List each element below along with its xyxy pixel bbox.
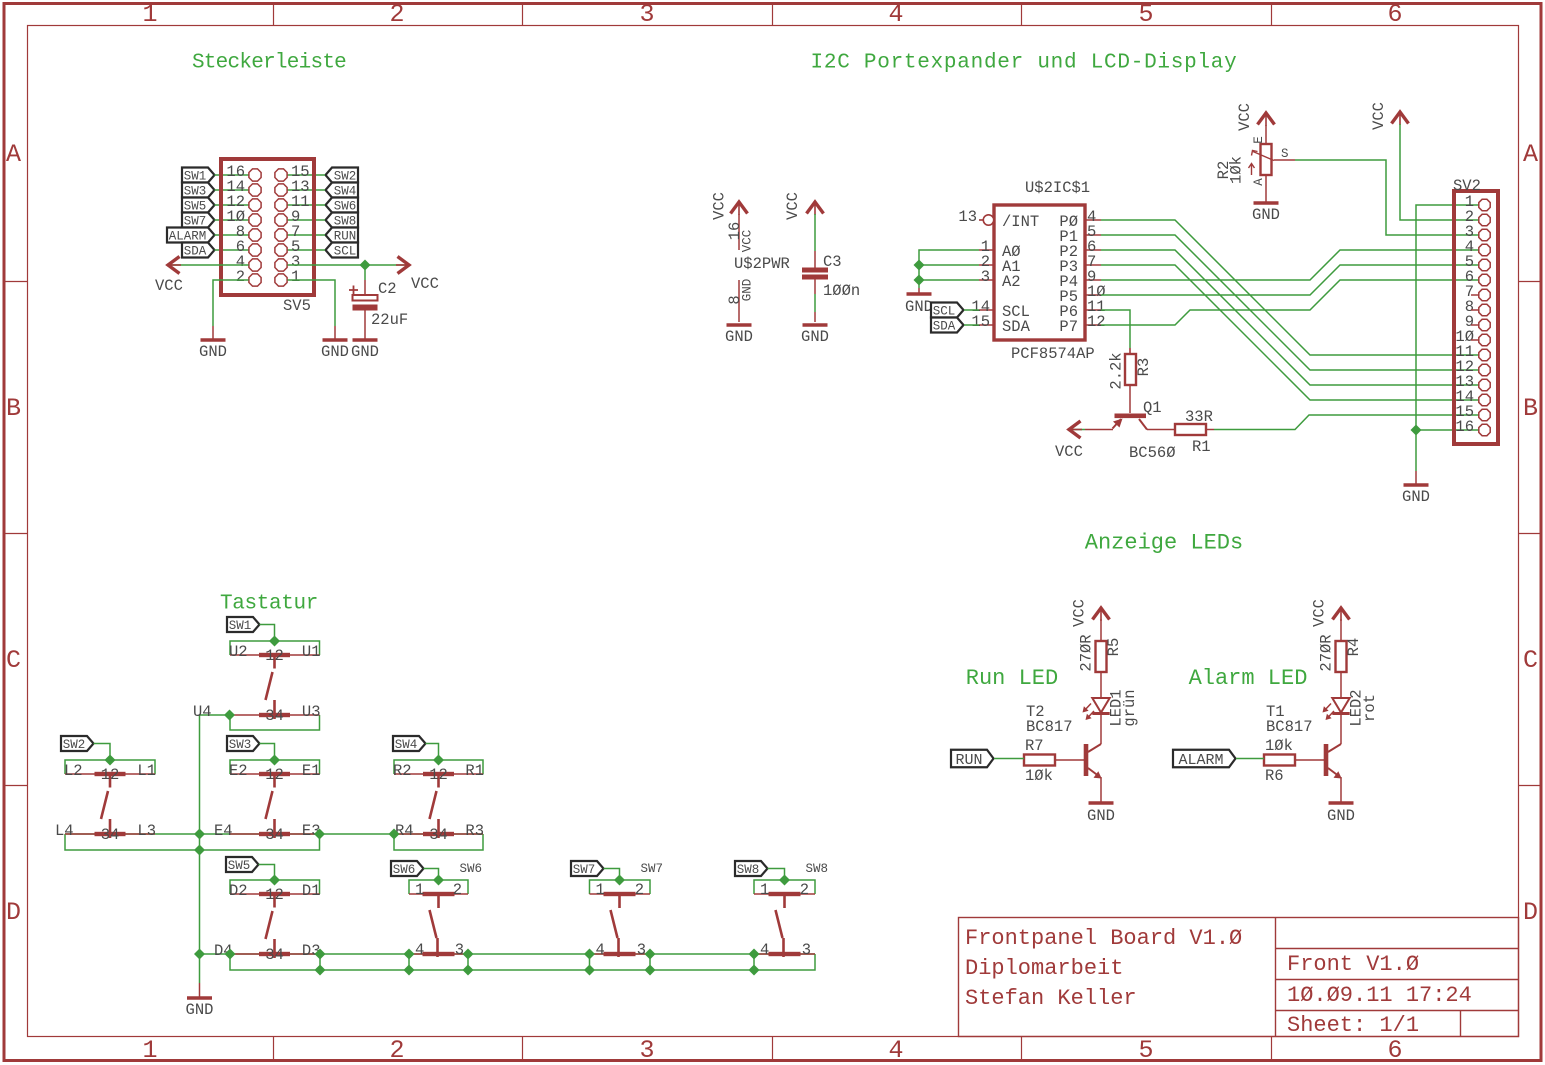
svg-text:Front V1.Ø: Front V1.Ø — [1287, 952, 1419, 977]
wire — [994, 758, 1024, 760]
wire — [215, 189, 249, 191]
net label SDA — [931, 318, 964, 333]
svg-text:12: 12 — [429, 766, 448, 784]
net label SW6 — [326, 198, 359, 213]
wire — [215, 204, 249, 206]
SV2 pin 5 pad — [1479, 259, 1490, 270]
svg-text:Sheet: 1/1: Sheet: 1/1 — [1287, 1013, 1419, 1038]
svg-text:RUN: RUN — [955, 752, 982, 769]
switch SW5 lever — [273, 894, 276, 908]
junction — [914, 275, 925, 286]
net label SCL — [326, 243, 359, 258]
wire — [753, 954, 755, 970]
svg-text:VCC: VCC — [155, 277, 183, 295]
svg-text:VCC: VCC — [1370, 102, 1388, 130]
svg-text:GND: GND — [199, 343, 227, 361]
wire A1 — [919, 264, 979, 266]
junction — [194, 949, 205, 960]
svg-text:D: D — [6, 898, 21, 927]
SV2 pin 10 stub — [1471, 339, 1479, 341]
U$2PWR pin 16 wire — [738, 214, 740, 250]
SV5 pin 8 pad — [249, 229, 261, 241]
svg-text:grün: grün — [1121, 689, 1139, 726]
wire P5 to SV2 pin 5 — [1101, 265, 1479, 295]
wire — [1415, 430, 1417, 471]
supply VCC arrow left — [168, 257, 180, 274]
svg-text:SCL: SCL — [334, 245, 357, 259]
svg-text:SDA: SDA — [1002, 318, 1031, 336]
svg-text:SW5: SW5 — [228, 859, 251, 873]
trimmer R2 body — [1261, 144, 1272, 175]
wire — [1129, 348, 1131, 354]
wire junction to C2 — [364, 265, 366, 280]
supply VCC arrow — [1093, 608, 1110, 620]
junction — [645, 949, 656, 960]
svg-text:Run LED: Run LED — [966, 666, 1058, 691]
SV2 pin 9 stub — [1471, 324, 1479, 326]
svg-text:VCC: VCC — [1311, 599, 1329, 627]
wire — [215, 174, 249, 176]
svg-text:Anzeige LEDs: Anzeige LEDs — [1085, 531, 1243, 556]
wire — [814, 312, 816, 322]
SV2 pin 9 pad — [1479, 319, 1490, 330]
svg-text:E1: E1 — [302, 762, 321, 780]
wire SV2 pin 1 to GND bus — [1416, 205, 1479, 430]
net label RUN — [951, 750, 994, 768]
supply VCC arrow — [1258, 113, 1275, 125]
net label RUN — [326, 228, 359, 243]
svg-text:E: E — [1252, 136, 1266, 144]
svg-text:VCC: VCC — [1055, 443, 1083, 461]
junction — [269, 755, 280, 766]
pin 12 stub — [1085, 324, 1101, 326]
wire GND bus row2 — [65, 833, 483, 835]
svg-text:R1: R1 — [1192, 438, 1211, 456]
svg-text:L4: L4 — [55, 822, 74, 840]
junction — [584, 949, 595, 960]
svg-text:VCC: VCC — [411, 275, 439, 293]
junction — [269, 875, 280, 886]
svg-text:SDA: SDA — [933, 320, 956, 334]
svg-text:1ØØn: 1ØØn — [823, 282, 860, 300]
ground GND — [727, 323, 752, 327]
wire A2 — [919, 279, 979, 281]
svg-text:27ØR: 27ØR — [1078, 634, 1096, 671]
svg-text:A: A — [6, 140, 21, 169]
svg-text:U3: U3 — [302, 703, 321, 721]
wire SV5 pin 1 to GND — [288, 280, 336, 326]
switch SW8 bottom contacts — [754, 953, 815, 955]
junction — [360, 260, 371, 271]
power symbol U$2PWR VCC arrow — [731, 202, 748, 214]
SV5 pin 5 pad — [275, 244, 287, 256]
junction — [389, 829, 400, 840]
svg-text:VCC: VCC — [784, 192, 802, 220]
wire — [1295, 160, 1479, 235]
svg-text:GND: GND — [905, 298, 933, 316]
wire — [215, 234, 249, 236]
wire — [1100, 714, 1102, 745]
wire — [259, 865, 275, 881]
wire switch top loop — [230, 880, 320, 894]
svg-text:I2C Portexpander und LCD-Displ: I2C Portexpander und LCD-Display — [811, 52, 1238, 75]
svg-text:1: 1 — [142, 1036, 157, 1065]
svg-text:U2: U2 — [229, 643, 248, 661]
SV2 pin 8 stub — [1471, 309, 1479, 311]
SV5 pin 2 pad — [249, 274, 261, 286]
svg-text:2: 2 — [453, 881, 462, 899]
junction — [463, 965, 474, 976]
net label SW6 — [391, 861, 424, 876]
svg-text:GND: GND — [725, 328, 753, 346]
net label SW4 — [393, 736, 426, 751]
wire — [1295, 759, 1324, 761]
switch SW8 lever — [783, 894, 786, 908]
svg-text:1Øk: 1Øk — [1228, 156, 1246, 184]
svg-text:5: 5 — [1138, 1036, 1153, 1065]
wire switch top loop — [230, 760, 320, 774]
wire VCC to SV5 pin 4 — [170, 264, 249, 266]
ground GND — [353, 338, 378, 342]
wire — [1340, 672, 1342, 698]
svg-text:Stefan Keller: Stefan Keller — [965, 986, 1137, 1011]
switch SW3 top contacts — [230, 773, 320, 775]
wire — [215, 249, 249, 251]
wire R2 S to SV2 pin 3 — [1274, 159, 1295, 161]
switch SW3 bottom contacts — [230, 833, 320, 835]
resistor R7 — [1024, 755, 1055, 766]
svg-text:E4: E4 — [214, 822, 233, 840]
junction — [194, 845, 205, 856]
svg-text:4: 4 — [415, 941, 424, 959]
SV2 pin 2 pad — [1479, 214, 1490, 225]
svg-text:34: 34 — [429, 826, 448, 844]
wire — [288, 249, 326, 251]
svg-text:GND: GND — [1327, 807, 1355, 825]
svg-text:3: 3 — [981, 268, 990, 286]
ground GND — [201, 338, 226, 342]
svg-text:2: 2 — [236, 268, 245, 286]
junction — [269, 636, 280, 647]
svg-text:34: 34 — [265, 826, 284, 844]
pin 6 stub — [1085, 249, 1101, 251]
switch SW8 top contacts — [754, 893, 815, 895]
ground GND — [323, 338, 348, 342]
junction — [315, 949, 326, 960]
ground GND — [907, 292, 932, 296]
T2 emitter — [1088, 768, 1100, 777]
wire — [1340, 619, 1342, 641]
LED LED2 — [1332, 698, 1349, 713]
wire R3 to Q1 base — [1129, 385, 1131, 413]
wire — [424, 869, 439, 881]
svg-text:5: 5 — [1138, 0, 1153, 29]
wire collector to R1 — [1147, 429, 1175, 431]
svg-text:1: 1 — [415, 881, 424, 899]
wire SV2 pin 16 — [1416, 429, 1479, 431]
SV5 pin 1Ø pad — [249, 214, 261, 226]
switch SW2 bottom contacts — [65, 833, 155, 835]
wire switch bottom loop — [230, 715, 320, 730]
wire — [964, 324, 979, 326]
svg-text:SW6: SW6 — [393, 863, 416, 877]
wire row2 loop L-E — [65, 834, 320, 850]
wire switch top loop — [590, 880, 651, 894]
svg-text:Frontpanel Board V1.Ø: Frontpanel Board V1.Ø — [965, 926, 1242, 951]
T1 collector — [1328, 744, 1341, 752]
wire switch top loop — [409, 880, 468, 894]
svg-text:SW8: SW8 — [806, 862, 829, 876]
svg-text:4: 4 — [596, 941, 605, 959]
SV2 pin 1 pad — [1479, 199, 1490, 210]
wire row3 loop — [230, 954, 815, 970]
junction — [749, 949, 760, 960]
SV2 pin 7 stub — [1471, 294, 1479, 296]
wire R2 to GND — [1265, 175, 1267, 202]
SV2 pin 16 pad — [1479, 424, 1490, 435]
svg-text:VCC: VCC — [741, 230, 755, 253]
svg-text:1: 1 — [760, 881, 769, 899]
svg-text:B: B — [6, 394, 21, 423]
svg-text:6: 6 — [1387, 0, 1402, 29]
wire SV5 pin 2 to GND — [213, 280, 249, 326]
svg-text:1Øk: 1Øk — [1265, 737, 1293, 755]
wire — [589, 954, 591, 970]
svg-text:VCC: VCC — [1071, 599, 1089, 627]
SV2 pin 6 pad — [1479, 274, 1490, 285]
junction — [614, 875, 625, 886]
wire — [212, 326, 214, 339]
net label SW2 — [61, 736, 94, 751]
svg-text:12: 12 — [1087, 313, 1106, 331]
wire A0 chain — [919, 250, 979, 288]
switch SW7 bottom contacts — [590, 953, 651, 955]
supply VCC arrow — [807, 202, 824, 214]
switch SW1 lever — [273, 655, 276, 669]
svg-text:SW3: SW3 — [229, 738, 252, 752]
junction — [433, 755, 444, 766]
junction — [433, 875, 444, 886]
svg-text:GND: GND — [741, 279, 755, 302]
SV5 pin 4 pad — [249, 259, 261, 271]
junction — [404, 949, 415, 960]
wire switch top loop — [65, 760, 155, 774]
wire — [288, 204, 326, 206]
R2 adjust arrow — [1249, 164, 1255, 176]
svg-text:13: 13 — [958, 208, 977, 226]
svg-text:VCC: VCC — [711, 192, 729, 220]
wire — [1236, 758, 1264, 760]
svg-text:Q1: Q1 — [1143, 399, 1162, 417]
svg-text:SW6: SW6 — [460, 862, 483, 876]
svg-text:4: 4 — [888, 1036, 903, 1065]
svg-text:PCF8574AP: PCF8574AP — [1011, 345, 1095, 363]
switch SW1 top contacts — [230, 654, 320, 656]
junction — [404, 965, 415, 976]
svg-text:U4: U4 — [193, 703, 212, 721]
switch SW6 lever — [437, 894, 440, 908]
svg-text:D: D — [1523, 898, 1538, 927]
wire — [199, 983, 201, 997]
wire R1 to SV2 pin 15 — [1214, 415, 1479, 430]
wire P3 to SV2 pin 14 — [1101, 265, 1479, 400]
svg-text:12: 12 — [265, 766, 284, 784]
svg-text:12: 12 — [101, 766, 120, 784]
svg-text:SW2: SW2 — [63, 738, 86, 752]
svg-text:12: 12 — [265, 647, 284, 665]
svg-text:SW7: SW7 — [641, 862, 664, 876]
connector SV2 — [1454, 191, 1498, 444]
wire — [604, 869, 620, 881]
junction — [1411, 425, 1422, 436]
wire — [426, 744, 439, 761]
capacitor C2 plus mark — [349, 286, 358, 295]
SV2 pin 13 pad — [1479, 379, 1490, 390]
capacitor C2 top plate — [353, 295, 378, 301]
wire row2 loop R — [394, 834, 483, 850]
net label SW4 — [326, 183, 359, 198]
svg-text:Diplomarbeit: Diplomarbeit — [965, 956, 1123, 981]
switch SW1 bottom contacts — [230, 714, 320, 716]
net label SW3 — [182, 183, 215, 198]
svg-text:2: 2 — [389, 1036, 404, 1065]
wire P0 to SV2 pin 11 — [1101, 220, 1479, 355]
wire VCC to SV2 pin 2 — [1400, 124, 1479, 220]
pin 1 stub — [979, 249, 994, 251]
wire switch top loop — [754, 880, 815, 894]
wire P2 to SV2 pin 13 — [1101, 250, 1479, 385]
SV5 pin 11 pad — [275, 199, 287, 211]
svg-text:27ØR: 27ØR — [1318, 634, 1336, 671]
SV2 pin 12 pad — [1479, 364, 1490, 375]
SV5 pin 3 pad — [275, 259, 287, 271]
svg-text:3: 3 — [802, 941, 811, 959]
wire — [918, 288, 920, 293]
svg-text:D2: D2 — [229, 882, 248, 900]
net label SW2 — [326, 168, 359, 183]
junction — [584, 965, 595, 976]
svg-text:34: 34 — [101, 826, 120, 844]
ground GND — [187, 996, 212, 1000]
wire C3 to GND — [814, 280, 816, 295]
wire — [215, 219, 249, 221]
wire switch top loop — [230, 641, 320, 655]
ground GND — [1329, 801, 1354, 805]
supply VCC arrow — [1392, 112, 1409, 124]
svg-text:SW4: SW4 — [395, 738, 418, 752]
junction — [224, 710, 235, 721]
svg-text:L3: L3 — [137, 822, 156, 840]
Q1 collector — [1139, 419, 1147, 430]
switch SW2 lever — [109, 774, 112, 788]
junction — [914, 260, 925, 271]
wire P4 to SV2 pin 4 — [1101, 250, 1479, 280]
switch SW2 top contacts — [65, 773, 155, 775]
svg-text:R4: R4 — [1345, 638, 1363, 657]
svg-text:2: 2 — [389, 0, 404, 29]
ground GND — [803, 323, 828, 327]
resistor R3 — [1125, 354, 1136, 385]
wire — [334, 326, 336, 339]
junction — [463, 949, 474, 960]
capacitor C2 bottom plate — [353, 305, 378, 311]
net label SW8 — [326, 213, 359, 228]
wire VCC to C3 — [814, 214, 816, 251]
svg-text:D1: D1 — [302, 882, 321, 900]
wire — [1340, 714, 1342, 745]
ground GND — [1089, 801, 1114, 805]
svg-text:GND: GND — [1087, 807, 1115, 825]
pin 14 stub — [979, 309, 994, 311]
wire P6 to R3 — [1101, 310, 1130, 348]
SV2 pin 7 pad — [1479, 289, 1490, 300]
wire keyboard GND drop — [199, 954, 201, 983]
svg-text:34: 34 — [265, 946, 284, 964]
wire — [288, 234, 326, 236]
svg-text:A: A — [1252, 178, 1266, 186]
transistor T1 base bar — [1324, 744, 1329, 776]
connector SV5 — [221, 159, 314, 295]
svg-text:R6: R6 — [1265, 767, 1284, 785]
svg-text:R1: R1 — [465, 762, 484, 780]
SV2 pin 10 pad — [1479, 334, 1490, 345]
pin 5 stub — [1085, 234, 1101, 236]
LED1 emission arrows — [1084, 704, 1095, 720]
T1 emitter — [1328, 768, 1340, 777]
SV5 pin 16 pad — [249, 169, 261, 181]
R2 wiper — [1253, 152, 1274, 161]
svg-text:R3: R3 — [465, 822, 484, 840]
switch SW6 top contacts — [409, 893, 468, 895]
SV5 pin 7 pad — [275, 229, 287, 241]
switch SW5 top contacts — [230, 893, 320, 895]
junction — [314, 829, 325, 840]
pin 2 stub — [979, 264, 994, 266]
svg-text:16: 16 — [1455, 418, 1474, 436]
switch SW3 lever — [273, 774, 276, 788]
wire P7 to SV2 pin 6 — [1101, 280, 1479, 325]
svg-text:1Ø.Ø9.11 17:24: 1Ø.Ø9.11 17:24 — [1287, 983, 1472, 1008]
svg-text:R3: R3 — [1135, 358, 1153, 377]
svg-text:SW1: SW1 — [229, 619, 252, 633]
svg-text:4: 4 — [760, 941, 769, 959]
junction — [779, 875, 790, 886]
resistor R4 — [1336, 641, 1347, 672]
svg-text:R7: R7 — [1025, 737, 1044, 755]
supply VCC arrow — [1069, 421, 1081, 438]
svg-text:BC817: BC817 — [1266, 718, 1313, 736]
SV2 pin 3 pad — [1479, 229, 1490, 240]
wire — [1340, 777, 1342, 802]
LED2 emission arrows — [1324, 704, 1335, 720]
svg-text:Alarm LED: Alarm LED — [1189, 666, 1308, 691]
wire vertical GND bus — [200, 715, 230, 954]
SV2 pin 8 pad — [1479, 304, 1490, 315]
wire — [260, 744, 275, 761]
svg-text:33R: 33R — [1185, 408, 1213, 426]
pin 7 stub — [1085, 264, 1101, 266]
switch SW4 bottom contacts — [394, 833, 483, 835]
wire — [814, 251, 816, 268]
wire — [1206, 429, 1214, 431]
wire — [1071, 429, 1085, 431]
SV5 pin 9 pad — [275, 214, 287, 226]
SV5 pin 15 pad — [275, 169, 287, 181]
pin 11 stub — [1085, 309, 1101, 311]
capacitor C3 bottom plate — [802, 275, 828, 280]
svg-text:GND: GND — [801, 328, 829, 346]
svg-text:GND: GND — [351, 343, 379, 361]
